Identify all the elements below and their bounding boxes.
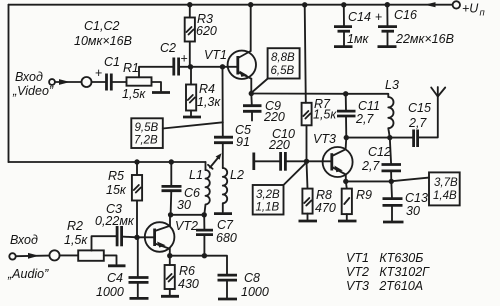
svg-text:620: 620 (196, 24, 217, 38)
capacitor C4 (129, 278, 149, 283)
svg-text:С1,С2: С1,С2 (84, 19, 119, 33)
ground (R1) (152, 91, 170, 94)
node R3/R4 on base wire (188, 64, 193, 69)
node VT3 emitter (343, 179, 348, 184)
node VT3 base (304, 159, 309, 164)
capacitor C13 (383, 181, 403, 220)
label +Un (462, 2, 486, 19)
svg-text:1,5к: 1,5к (64, 233, 88, 247)
capacitor C14 (334, 5, 352, 45)
audio pass-through ring (49, 250, 59, 260)
svg-text:VT2: VT2 (175, 219, 198, 233)
wire VT1 emitter down (250, 79, 252, 94)
node C6 on rail (169, 159, 174, 164)
capacitor C12 (382, 165, 402, 171)
transistor VT3 (323, 147, 353, 177)
node R3 on rail (187, 2, 192, 7)
svg-text:„Video”: „Video” (12, 84, 54, 98)
svg-text:Вход: Вход (15, 70, 43, 84)
svg-text:1,3к: 1,3к (197, 95, 221, 109)
svg-text:R5: R5 (108, 169, 124, 183)
wire ring to C1 (92, 81, 106, 83)
resistor R1 (127, 77, 152, 85)
svg-text:1000: 1000 (241, 285, 269, 299)
node VT2 collector (168, 212, 173, 217)
ground (C13) (383, 221, 404, 224)
wire C7 node to C8 (204, 256, 227, 275)
node L3/C12 bottom (387, 135, 392, 140)
wire C7 to emitter wire (203, 235, 205, 256)
svg-text:VT1 КТ630Б: VT1 КТ630Б (346, 251, 423, 265)
svg-text:30: 30 (177, 198, 191, 212)
wire collector node down to VT2 (169, 215, 171, 226)
capacitor C3 (117, 226, 122, 246)
resistor R2 (78, 250, 104, 260)
video pass-through ring (82, 77, 92, 87)
svg-text:С13: С13 (405, 191, 428, 205)
ground (R4) (183, 116, 201, 119)
wire R1 top to C2 (139, 67, 173, 78)
svg-text:22мк×16В: 22мк×16В (395, 32, 454, 46)
wire C11 bottom (345, 116, 347, 138)
node C14 on rail (341, 2, 346, 7)
inductor L3 (388, 97, 393, 138)
capacitor C6 (162, 186, 182, 190)
resistor R8 (302, 161, 312, 219)
svg-text:VT3: VT3 (313, 132, 336, 146)
transistor VT2 (145, 222, 175, 252)
ground (R6) (161, 295, 179, 298)
wire VT3 emitter down (345, 175, 347, 182)
wire C12 bottom (390, 171, 392, 182)
svg-text:220: 220 (268, 138, 290, 152)
label Vhod Video (12, 70, 54, 98)
svg-text:С1: С1 (104, 55, 120, 69)
svg-text:R8: R8 (316, 188, 332, 202)
node VT2 emitter (167, 253, 172, 258)
+Un power rail (top) (9, 4, 453, 6)
wire base node to C4 (137, 237, 139, 277)
voltage box 3,7V/1,4V (392, 172, 460, 205)
svg-text:6,5В: 6,5В (271, 65, 295, 77)
terminal +Un (453, 1, 460, 8)
audio input terminal (9, 253, 15, 259)
svg-text:Вход: Вход (10, 233, 38, 247)
svg-text:VT1: VT1 (204, 48, 227, 62)
wire VT3 collector up (345, 138, 348, 150)
svg-text:С14: С14 (348, 10, 371, 24)
node C5 branch on base wire (220, 64, 225, 69)
wire rail corner into L1 (205, 162, 207, 170)
current arrow on +Un rail (425, 2, 436, 7)
emitter wire to tank node (251, 93, 345, 95)
node VT1 emitter (249, 91, 254, 96)
wire ring to R2 (60, 254, 78, 256)
audio input arrow wire (16, 253, 49, 259)
svg-text:R6: R6 (179, 264, 195, 278)
wire VT2 emitter down (169, 249, 171, 256)
svg-text:2,7: 2,7 (355, 112, 374, 126)
resistor R3 (185, 5, 195, 67)
trimmer arrow on L2 (208, 153, 222, 169)
wire C1 to R1 (111, 81, 126, 83)
svg-text:15к: 15к (106, 183, 127, 197)
svg-text:8,8В: 8,8В (271, 52, 295, 64)
capacitor C9 (243, 94, 262, 121)
node tank top (343, 91, 348, 96)
capacitor C1 (95, 66, 111, 91)
antenna (431, 87, 445, 97)
wire base node to VT2 (137, 236, 155, 238)
wire C2 to VT1 base (179, 66, 237, 68)
wire L1 node down to C7 (203, 215, 205, 230)
svg-text:С4: С4 (107, 271, 123, 285)
video input terminal (49, 79, 55, 85)
svg-text:R1: R1 (123, 61, 139, 75)
svg-text:С2: С2 (160, 41, 176, 55)
svg-text:+U: +U (462, 2, 479, 16)
note C1,C2 value (74, 19, 132, 48)
svg-text:С16: С16 (394, 8, 417, 22)
resistor R5 (132, 162, 142, 237)
wire R1 right to ground (152, 82, 162, 91)
voltage box 3,2V/1,1V (253, 163, 306, 215)
node C12/C13 (389, 179, 394, 184)
ground (C14) (334, 45, 353, 48)
node C16 on rail (385, 2, 390, 7)
tank bottom wire (346, 137, 413, 139)
capacitor C5 (214, 137, 233, 143)
inductor L1 (204, 170, 210, 215)
svg-text:+: + (375, 10, 382, 24)
wire VT3 emitter to C12 node (346, 180, 392, 182)
stub plate before C10 (252, 153, 255, 171)
svg-text:680: 680 (216, 231, 237, 245)
wire emitter to C7 node (170, 255, 205, 257)
wire C6 to collector node (170, 191, 173, 215)
node R7 on rail (302, 2, 307, 7)
wire VT1 collector to rail (250, 5, 252, 51)
wire C3 to VT2 base node (122, 236, 137, 239)
svg-text:0,22мк: 0,22мк (95, 214, 135, 228)
svg-text:1000: 1000 (96, 285, 124, 299)
node L1 bottom (202, 212, 207, 217)
node VT1 collector on rail (248, 2, 253, 7)
ground (R9) (338, 220, 357, 223)
svg-text:С7: С7 (217, 218, 234, 232)
svg-text:1,5к: 1,5к (122, 87, 146, 101)
svg-text:„Audio”: „Audio” (7, 267, 49, 281)
svg-text:3,2В: 3,2В (256, 189, 280, 201)
svg-text:3,7В: 3,7В (434, 177, 458, 189)
inductor L2 (223, 168, 227, 212)
svg-text:470: 470 (315, 201, 336, 215)
node C7 bottom (202, 253, 207, 258)
wire base node to VT3 (307, 160, 332, 162)
node R5 on rail (134, 159, 139, 164)
capacitor C15 (414, 130, 418, 148)
tank top wire (346, 94, 389, 97)
svg-text:220: 220 (263, 110, 285, 124)
resistor R4 (186, 67, 196, 116)
svg-text:VT2 КТ3102Г: VT2 КТ3102Г (346, 265, 430, 279)
svg-text:2,7: 2,7 (361, 159, 380, 173)
ground (R2) (108, 264, 126, 267)
wire collector node to L1 node (171, 214, 205, 216)
wire C5 to L2 (222, 143, 224, 168)
svg-text:п: п (480, 8, 486, 19)
svg-text:30: 30 (406, 204, 420, 218)
svg-text:430: 430 (178, 277, 199, 291)
svg-text:С11: С11 (358, 99, 380, 113)
svg-text:С8: С8 (244, 271, 260, 285)
video input arrow wire (56, 79, 82, 85)
svg-text:10мк×16В: 10мк×16В (74, 34, 132, 48)
svg-text:R2: R2 (67, 219, 83, 233)
svg-text:L2: L2 (230, 168, 244, 182)
voltage box 8,8V/6,5V (253, 48, 300, 92)
node VT2 base (134, 235, 139, 240)
ground (R8) (299, 220, 318, 223)
left frame wire (8, 5, 10, 162)
resistor R6 (165, 256, 175, 295)
svg-text:7,2В: 7,2В (134, 135, 158, 147)
wire C11 top (345, 94, 347, 111)
resistor R7 (302, 5, 312, 161)
capacitor C8 (218, 275, 238, 280)
wire C8 to ground (226, 280, 228, 297)
capacitor C10 (281, 152, 286, 171)
svg-text:VT3 2Т610А: VT3 2Т610А (346, 279, 423, 293)
wire rail to C6 (170, 162, 172, 186)
ground (L2) (214, 212, 232, 215)
svg-text:R4: R4 (199, 82, 215, 96)
transistor VT1 (228, 51, 256, 79)
svg-text:1,1В: 1,1В (256, 202, 280, 214)
svg-text:С15: С15 (408, 101, 431, 115)
svg-text:91: 91 (236, 135, 250, 149)
ground (C4) (130, 297, 149, 300)
ground (C16) (378, 45, 397, 48)
svg-text:1мк: 1мк (347, 32, 370, 46)
mid supply rail wire (9, 161, 206, 163)
svg-text:1,5к: 1,5к (313, 108, 337, 122)
capacitor C11 (337, 111, 356, 116)
wire R2 top tap to C3 (92, 236, 117, 250)
capacitor C7 (196, 230, 213, 235)
wire stub to C10 (254, 160, 280, 162)
svg-text:R9: R9 (356, 188, 372, 202)
svg-text:С12: С12 (368, 145, 391, 159)
capacitor C2 (174, 52, 188, 76)
transistor type list (346, 251, 430, 293)
ground (C8) (218, 298, 237, 301)
label Vhod Audio (7, 233, 49, 281)
capacitor C16 (375, 5, 397, 45)
wire C15 to antenna (418, 97, 438, 138)
voltage box 9,5V/7,2V (131, 118, 223, 148)
resistor R9 (342, 181, 352, 219)
svg-text:9,5В: 9,5В (135, 122, 159, 134)
svg-text:L3: L3 (385, 78, 399, 92)
node tank bottom (344, 135, 349, 140)
svg-text:L1: L1 (189, 168, 203, 182)
wire R2 right to ground (104, 255, 117, 264)
svg-text:+: + (95, 66, 102, 80)
wire base node to C5 (222, 67, 224, 137)
svg-text:1,4В: 1,4В (433, 190, 457, 202)
wire C4 to ground (137, 282, 139, 297)
svg-text:+: + (181, 52, 188, 66)
wire C12 top (390, 138, 391, 164)
svg-text:2,7: 2,7 (408, 116, 427, 130)
wire C10 to VT3 base node (285, 160, 306, 162)
